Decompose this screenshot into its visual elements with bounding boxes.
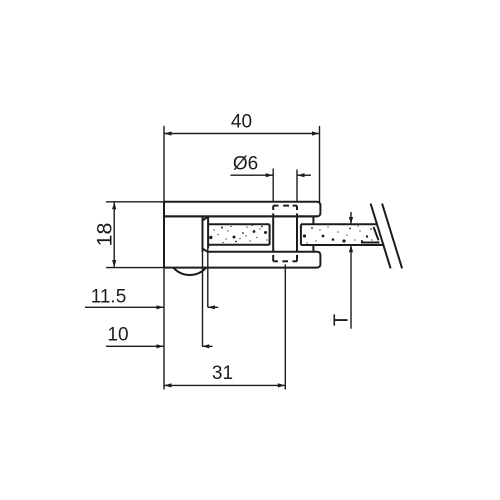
- svg-text:18: 18: [93, 223, 117, 247]
- svg-text:Ø6: Ø6: [233, 154, 258, 175]
- svg-text:T: T: [331, 314, 353, 326]
- svg-text:10: 10: [107, 325, 128, 346]
- svg-text:31: 31: [212, 363, 233, 384]
- svg-text:11.5: 11.5: [91, 287, 127, 308]
- svg-text:40: 40: [231, 112, 252, 133]
